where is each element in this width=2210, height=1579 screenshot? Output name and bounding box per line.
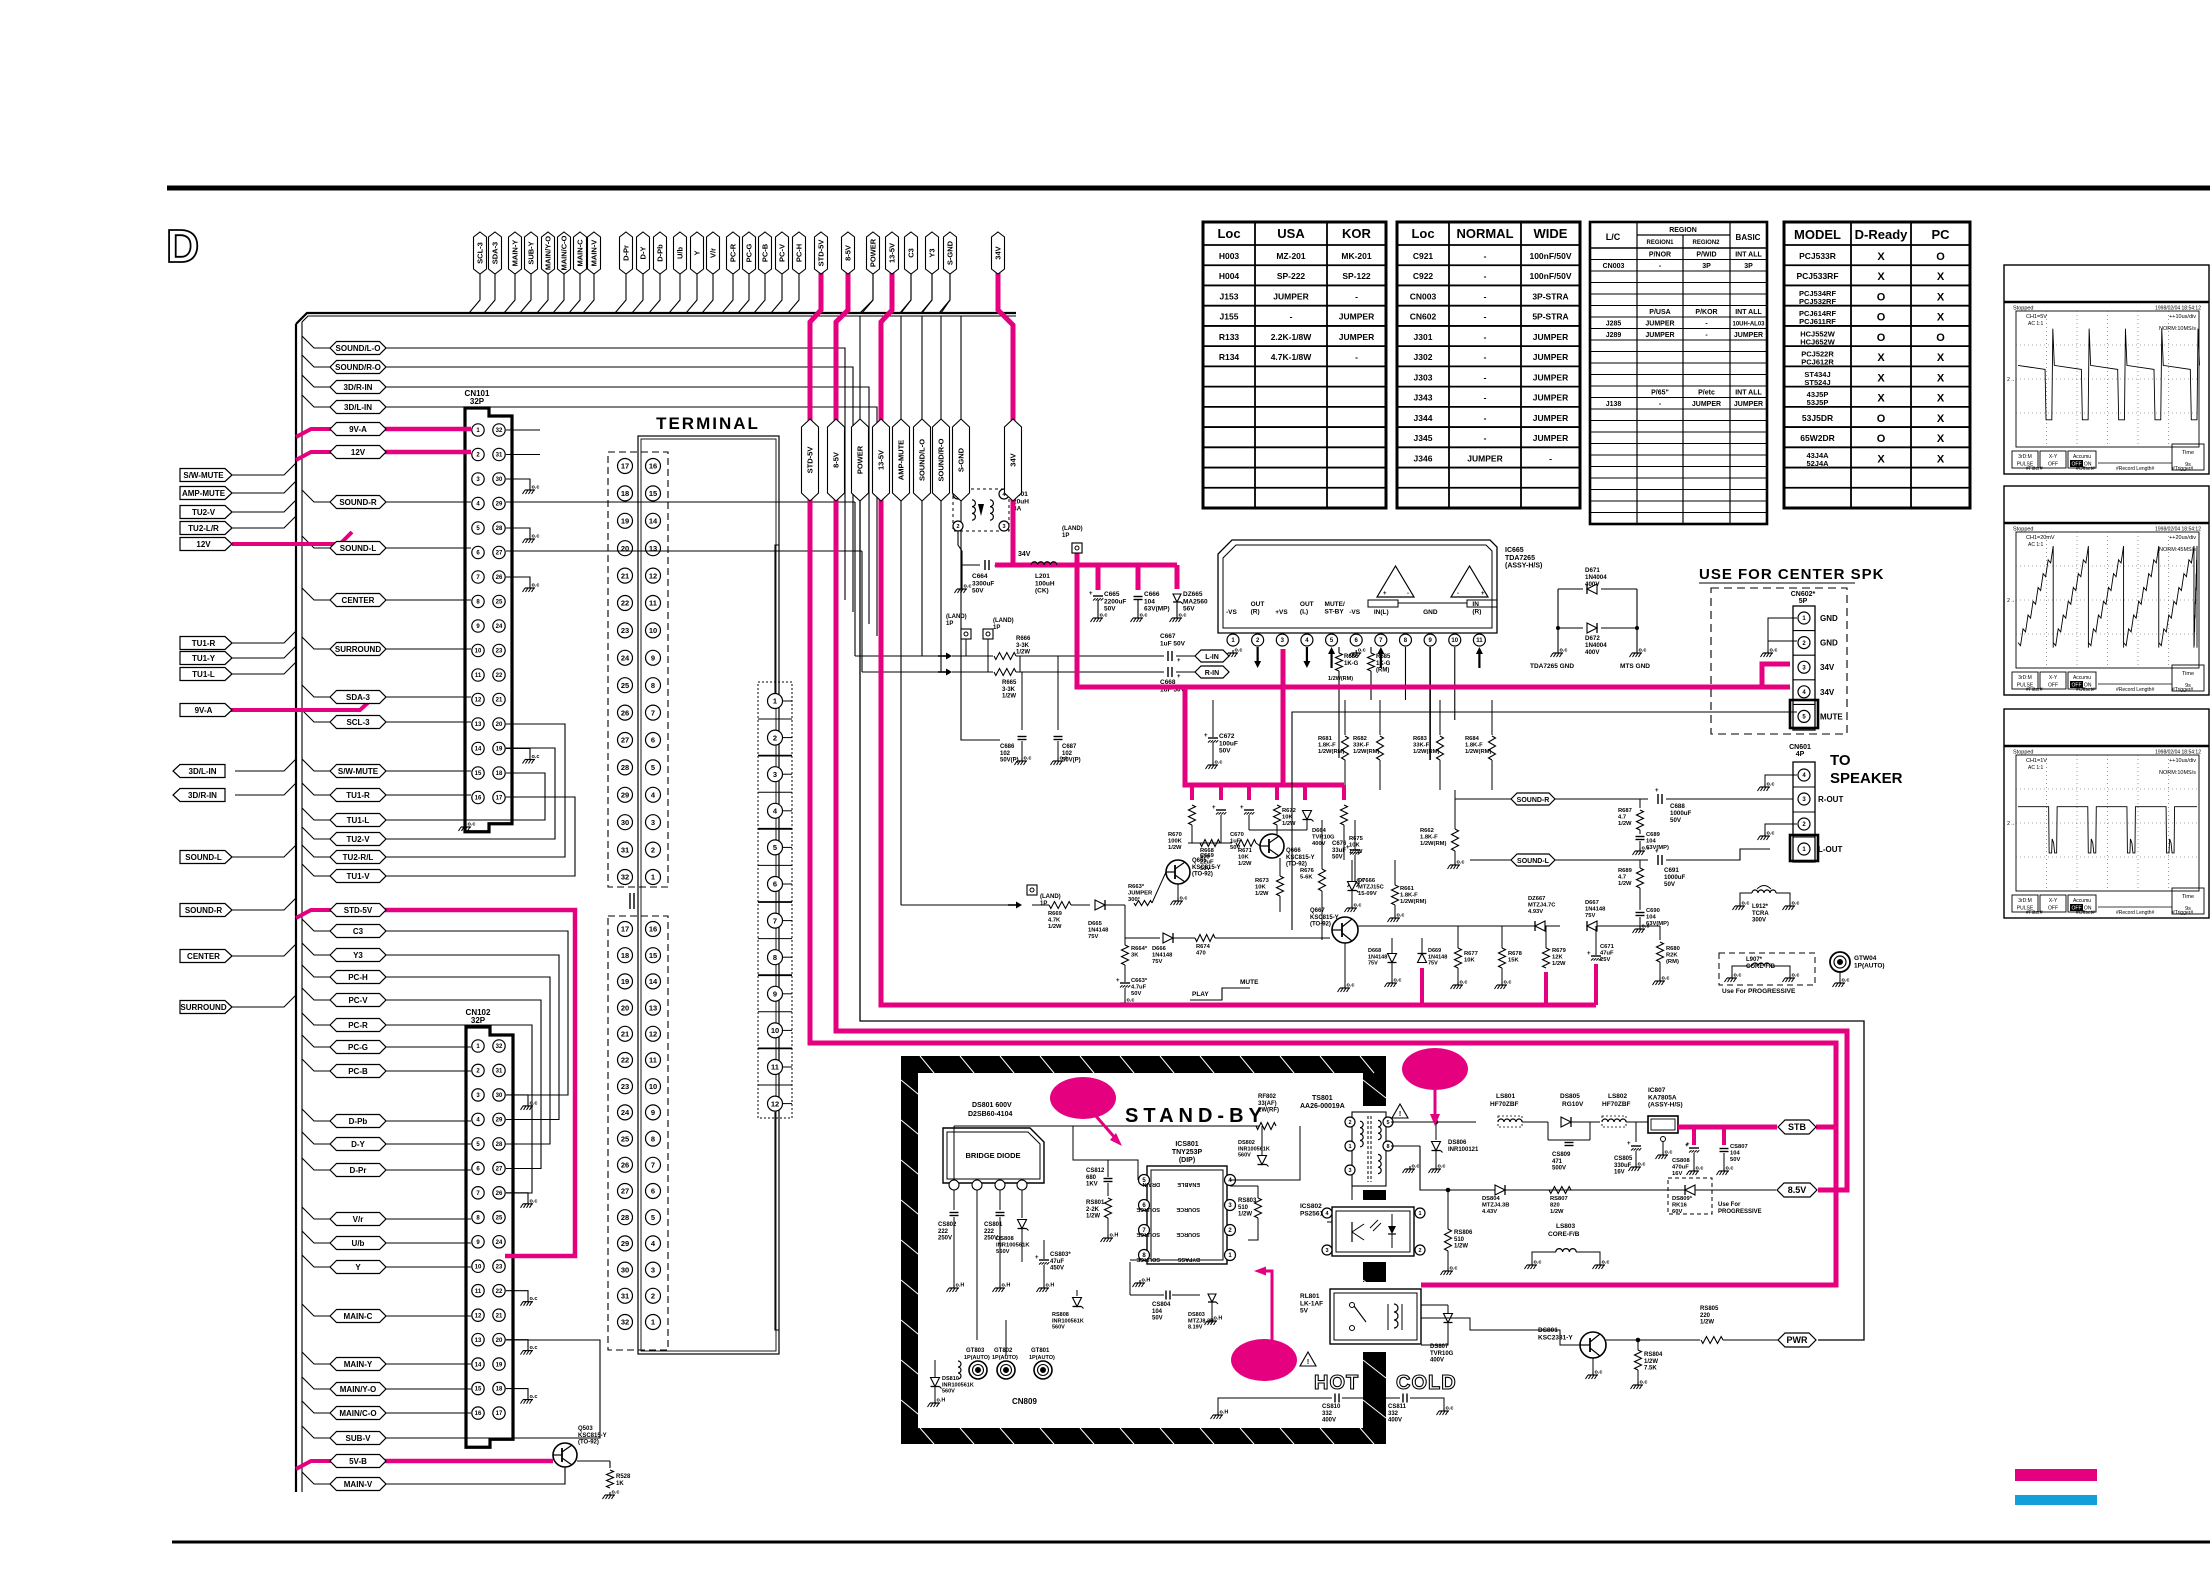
svg-text:5: 5 [651,763,655,772]
svg-text:o.H: o.H [1002,1283,1011,1289]
diode D672 [1558,627,1583,629]
svg-text:D-Ready: D-Ready [1855,227,1909,242]
svg-text:o.c: o.c [1842,978,1850,984]
svg-text:1.8K-F: 1.8K-F [1465,743,1483,749]
flag PC-H [793,232,806,274]
resistor R677 [1455,948,1462,968]
svg-text:S/W-MUTE: S/W-MUTE [183,471,224,480]
wire tag AMP-MUTE [232,481,296,493]
resistor R661 [1392,885,1399,905]
svg-text:DS802: DS802 [1238,1140,1255,1146]
svg-text:100uF: 100uF [1219,740,1238,747]
svg-text:1/2W: 1/2W [1016,650,1030,656]
wire stub D-Pr [302,1158,331,1170]
svg-text:SP-222: SP-222 [1277,271,1306,281]
svg-text:o.c: o.c [1534,1260,1542,1266]
flag D-Pb [654,232,667,274]
svg-text:D669: D669 [1428,948,1441,954]
wire stub MAIN-V [302,1472,331,1484]
resistor RS805 [1701,1337,1723,1344]
svg-text:4.43V: 4.43V [1482,1209,1497,1215]
svg-text:OUT: OUT [1251,601,1265,608]
capacitor CS811 [1386,1397,1400,1399]
svg-text:-: - [1484,251,1487,261]
net label CENTER [330,594,386,607]
svg-text:C686: C686 [1000,744,1015,750]
svg-text:C921: C921 [1413,251,1434,261]
wire tag TU2-L/R [232,516,296,528]
wire MAIN-V [386,1467,565,1484]
svg-text:o.c: o.c [964,584,972,590]
svg-text:3-3K: 3-3K [1002,687,1016,693]
svg-text:15-09V: 15-09V [1358,891,1377,897]
wire stub SCL-3 [302,710,331,722]
svg-text:-: - [1484,433,1487,443]
input tag 12V [180,538,232,551]
diode D667b [1587,921,1597,931]
svg-text:D2SB60-4104: D2SB60-4104 [968,1111,1012,1118]
wire stub C3 [302,919,331,931]
diode DS809 option [1668,1178,1712,1214]
svg-text:CH1=5V: CH1=5V [2026,314,2047,320]
svg-text:2→: 2→ [2007,377,2015,383]
net label U/b [330,1237,386,1250]
svg-text:30: 30 [621,818,629,827]
svg-text:L-IN: L-IN [1205,654,1219,661]
capacitor C690 [1639,888,1641,910]
svg-text:25: 25 [496,600,503,606]
resistor R687 [1639,799,1641,808]
wires diode pump [1557,589,1559,650]
svg-text:CENTER: CENTER [342,596,375,605]
svg-text:D671: D671 [1585,567,1600,574]
svg-text:PC-H: PC-H [348,973,368,982]
svg-text:Accumu: Accumu [2073,454,2091,460]
svg-text:1/2W: 1/2W [1048,924,1062,930]
wire stub SURROUND [302,637,331,649]
zener DS803 [1208,1294,1216,1302]
svg-text:14: 14 [475,1362,482,1368]
cap CS807 [1720,1148,1729,1150]
wire flag U/b [669,274,680,313]
svg-text:C663*: C663* [1131,978,1148,984]
svg-text:3: 3 [651,818,655,827]
svg-text:10: 10 [1451,638,1458,644]
svg-text:C670: C670 [1230,832,1244,838]
svg-text:(R): (R) [1251,608,1260,615]
wires CN602 gnd [1768,618,1797,641]
svg-text:470uF: 470uF [1672,1165,1689,1171]
svg-text:32P: 32P [471,1016,486,1025]
net label PC-V [330,994,386,1007]
svg-text:33K-F: 33K-F [1353,743,1370,749]
svg-text:332: 332 [1388,1411,1399,1417]
svg-text:X-Y: X-Y [2049,898,2058,904]
flag U/b [674,232,687,274]
svg-text:D664: D664 [1312,828,1327,834]
svg-text:31: 31 [621,1292,629,1301]
svg-text:75V: 75V [1088,934,1098,940]
svg-text:32: 32 [496,1044,503,1050]
svg-text:X-Y: X-Y [2049,675,2058,681]
svg-text:1N4148: 1N4148 [1585,907,1606,913]
svg-text:2→: 2→ [2007,821,2015,827]
svg-text:TU1-R: TU1-R [346,791,370,800]
svg-text:(R): (R) [1472,608,1481,615]
svg-text:C672: C672 [1219,733,1235,740]
svg-text:27: 27 [621,736,629,745]
svg-text:3: 3 [1325,1248,1328,1254]
svg-text:+: + [1177,674,1181,680]
svg-text:R673: R673 [1255,878,1270,884]
svg-text:400V: 400V [1585,649,1600,656]
svg-text:-: - [1549,453,1552,463]
svg-text:CH1=1V: CH1=1V [2026,758,2047,764]
svg-text:X: X [1877,372,1885,384]
svg-text:1uF 50V: 1uF 50V [1160,640,1186,647]
svg-text:1/2W: 1/2W [1644,1359,1658,1365]
svg-text:8-5V: 8-5V [844,245,853,261]
wire flag D-Y [632,274,643,313]
gaps in frame for components [1360,1106,1389,1190]
svg-text:60V: 60V [1672,1209,1682,1215]
svg-text:3P: 3P [1744,263,1753,270]
svg-text:#Filter#: #Filter# [2026,466,2043,472]
input tag TU1-Y [180,652,232,665]
svg-text:Q667: Q667 [1310,908,1325,914]
standby thick frame [901,1056,1386,1444]
svg-text:100K: 100K [1168,839,1183,845]
svg-text:TDA7265 GND: TDA7265 GND [1530,663,1574,670]
wire flag MAIN-C [569,274,580,313]
wire stub Y3 [302,943,331,955]
svg-text:(ASSY-H/S): (ASSY-H/S) [1648,1102,1683,1109]
svg-text:12V: 12V [196,540,211,549]
land 1P node redraw [1072,543,1082,553]
svg-text:3P: 3P [1702,263,1711,270]
svg-text:BRIDGE DIODE: BRIDGE DIODE [965,1151,1020,1160]
capacitor C665 [1093,595,1103,597]
wire tag SOUND-L [232,845,296,857]
svg-text:(L): (L) [1300,608,1308,615]
svg-text:MZ-201: MZ-201 [1276,251,1306,261]
net label D-Pr [330,1164,386,1177]
svg-text:PROGRESSIVE: PROGRESSIVE [1718,1209,1762,1215]
svg-text:JUMPER: JUMPER [1339,312,1374,322]
diode RS808 [1076,1290,1078,1296]
svg-text:5V: 5V [1300,1308,1309,1315]
svg-text:34V: 34V [1820,688,1835,697]
svg-text:USE FOR CENTER SPK: USE FOR CENTER SPK [1699,566,1885,583]
pink highlight ellipse 3 [1231,1339,1297,1381]
svg-text:+: + [1212,805,1216,811]
svg-text:LK-1AF: LK-1AF [1300,1300,1323,1307]
net label SOUND/L-O [914,419,931,501]
svg-text:RS801: RS801 [1086,1200,1105,1206]
svg-text:AC 1:1: AC 1:1 [2028,765,2044,771]
svg-text:R686: R686 [1344,654,1359,660]
net label SURROUND [330,643,386,656]
svg-text:1P(AUTO): 1P(AUTO) [1029,1355,1055,1361]
svg-text:o.c: o.c [1638,1162,1646,1168]
svg-text:o.c: o.c [1060,756,1068,762]
net label AMP-MUTE [893,419,910,501]
svg-text:32: 32 [621,873,629,882]
net label R-IN [1195,666,1229,678]
cap CS803 [1039,1259,1049,1261]
svg-text:SURROUND: SURROUND [335,645,381,654]
svg-text:4.7: 4.7 [1618,815,1626,821]
svg-text:1/2W: 1/2W [1002,694,1016,700]
svg-text:X: X [1937,352,1945,364]
svg-text:SOURCE: SOURCE [1176,1231,1200,1237]
svg-text:30: 30 [496,477,503,483]
svg-text:SUB-Y: SUB-Y [527,241,536,264]
svg-text:5-6K: 5-6K [1300,875,1313,881]
inductor L201 [1031,562,1057,565]
svg-text:JUMPER: JUMPER [1692,401,1721,408]
svg-text:AC 1:1: AC 1:1 [2028,542,2044,548]
svg-text:2: 2 [773,733,777,742]
pink net 13-5V mute rail [881,272,1596,1005]
svg-text:JUMPER: JUMPER [1533,433,1568,443]
svg-text:1/2W: 1/2W [1552,961,1566,967]
svg-text:SURROUND: SURROUND [180,1003,226,1012]
svg-text:22uF: 22uF [1200,860,1214,866]
svg-text:R683: R683 [1413,736,1428,742]
progressive option box [1719,953,1815,985]
svg-text:2-2K: 2-2K [1086,1207,1100,1213]
connector GTW04 [1830,952,1850,972]
svg-text:INT ALL: INT ALL [1735,252,1762,259]
pink net STD-5V to CN102 [296,910,333,918]
svg-text:V/r: V/r [709,248,718,258]
svg-text:1/2W(RM): 1/2W(RM) [1420,841,1446,847]
svg-text:R133: R133 [1219,332,1240,342]
svg-text:GT802: GT802 [994,1348,1013,1354]
svg-text:3D/L-IN: 3D/L-IN [344,403,372,412]
svg-text:J345: J345 [1414,433,1433,443]
svg-text:29: 29 [496,1118,503,1124]
wires hex labels to CN102 pins [386,1046,471,1048]
svg-text:D665: D665 [1088,921,1103,927]
net label Y3 [330,949,386,962]
warning triangle [1392,1104,1408,1118]
svg-text:7.5K: 7.5K [1644,1366,1657,1372]
svg-text:13-5V: 13-5V [877,450,886,470]
svg-text:O: O [1877,312,1886,324]
svg-text:33(AF): 33(AF) [1258,1101,1277,1107]
terminal pin group 1 [608,452,668,887]
capacitor C668 [1167,667,1169,677]
svg-text:9V-A: 9V-A [349,425,367,434]
land 1P node [1072,543,1082,553]
inductor L601 [953,489,1009,531]
wire stub PC-B [302,1059,331,1071]
svg-text:STD-5V: STD-5V [344,906,373,915]
svg-text:-: - [1355,352,1358,362]
wire flag SUB-Y [520,274,531,313]
svg-text:4P: 4P [1796,751,1805,758]
svg-text:26: 26 [621,708,629,717]
svg-text:MAIN/Y-O: MAIN/Y-O [544,236,553,270]
svg-text:12V: 12V [351,448,366,457]
svg-text:WIDE: WIDE [1534,226,1568,241]
svg-text:o.c: o.c [530,1345,538,1351]
wire flag MAIN-V [583,274,594,313]
svg-text:1: 1 [651,873,655,882]
svg-text:R681: R681 [1318,736,1333,742]
svg-text:-: - [1484,271,1487,281]
svg-text:JUMPER: JUMPER [1467,453,1502,463]
svg-text:SOURCE: SOURCE [1136,1231,1160,1237]
diode DS807 [1444,1314,1453,1323]
svg-text:13-5V: 13-5V [888,243,897,263]
svg-text:++10us/div: ++10us/div [2169,314,2196,320]
wire flag Y [686,274,697,313]
svg-text:(TO-92): (TO-92) [578,1440,599,1446]
svg-text:DZ665: DZ665 [1183,591,1203,598]
svg-text:22: 22 [621,599,629,608]
svg-text:Accumu: Accumu [2073,898,2091,904]
svg-text:1000uF: 1000uF [1670,810,1692,817]
svg-text:1uF: 1uF [1230,839,1241,845]
svg-text:TDA7265: TDA7265 [1505,555,1535,562]
svg-text:R679: R679 [1552,948,1567,954]
svg-text:J138: J138 [1606,401,1622,408]
svg-text:MUTE: MUTE [1240,979,1259,986]
svg-text:560V: 560V [996,1249,1010,1255]
svg-text:MAIN-Y: MAIN-Y [511,240,520,267]
svg-text:Loc: Loc [1411,226,1434,241]
svg-text:D-Pb: D-Pb [656,244,665,262]
svg-text:100nF/50V: 100nF/50V [1529,251,1571,261]
svg-text:28: 28 [621,763,629,772]
wire to relay from transistor [1421,1318,1580,1345]
svg-text:SDA-3: SDA-3 [491,242,500,265]
svg-text:1: 1 [773,697,777,706]
svg-text:31: 31 [496,1069,503,1075]
svg-text:GTW04: GTW04 [1854,955,1877,962]
svg-text:R-OUT: R-OUT [1818,795,1843,804]
svg-text:PC-B: PC-B [761,243,770,262]
svg-text:34V: 34V [1820,663,1835,672]
svg-text:10: 10 [475,649,482,655]
svg-text:2: 2 [1348,1120,1351,1126]
svg-text:TVR10G: TVR10G [1312,835,1335,841]
svg-text:L201: L201 [1035,573,1050,580]
bridge diode DS801 [943,1128,1044,1183]
transistor Q667 [1332,917,1358,943]
svg-text:5: 5 [1386,1120,1389,1126]
svg-text:SP-122: SP-122 [1342,271,1371,281]
svg-text:R684: R684 [1465,736,1480,742]
svg-text:18: 18 [621,951,629,960]
svg-text:3D/R-IN: 3D/R-IN [344,383,373,392]
svg-text:13: 13 [475,722,482,728]
svg-text:R680: R680 [1666,946,1680,952]
svg-text:50V: 50V [1332,855,1343,861]
wire stub SUB-V [302,1426,331,1438]
svg-text:1N4148: 1N4148 [1088,928,1109,934]
svg-text:O: O [1877,433,1886,445]
svg-text:+: + [1035,1255,1039,1261]
gnd stubs CN601 [1765,775,1797,784]
svg-text:CN602*: CN602* [1791,591,1816,598]
svg-text:X: X [1937,312,1945,324]
svg-text:50V: 50V [1664,881,1676,888]
svg-text:19: 19 [621,977,629,986]
wire stub PC-V [302,988,331,1000]
svg-text:300°: 300° [1128,897,1141,903]
svg-text:V/r: V/r [353,1215,364,1224]
svg-text:(LAND): (LAND) [1040,894,1061,900]
svg-text:o.c: o.c [1770,648,1778,654]
svg-text:820: 820 [1550,1203,1560,1209]
svg-text:16: 16 [649,462,657,471]
wires right of standby top [1391,1121,1436,1123]
input tag 3D/L-IN [173,765,225,778]
net label MAIN-V [330,1478,386,1491]
svg-text:o.c: o.c [1100,613,1108,619]
wire flag MAIN/C-O [553,274,564,313]
svg-text:INT ALL: INT ALL [1735,309,1762,316]
wire SOUND/L-O down [922,501,940,656]
resistor R668 [1200,840,1220,847]
svg-text:400V: 400V [1585,581,1600,588]
svg-text:50V: 50V [1131,991,1141,997]
wire tag 3D/R-IN [235,783,296,795]
svg-text:o.c: o.c [1767,831,1775,837]
svg-text:19: 19 [496,1362,503,1368]
net label PC-H [330,971,386,984]
svg-text:GT801: GT801 [1031,1348,1050,1354]
input tag SOUND-R [180,904,232,917]
svg-text:300V: 300V [1752,918,1766,924]
svg-text:MAIN-C: MAIN-C [576,239,585,267]
svg-text:-: - [1290,312,1293,322]
svg-text:R689: R689 [1618,868,1633,874]
svg-text:S-GND: S-GND [957,447,966,472]
svg-text:(RM): (RM) [1376,668,1389,674]
wire stub SOUND/L-O [302,336,331,348]
input tag SURROUND [180,1001,232,1014]
pink highlight ellipse 2 [1402,1048,1468,1090]
svg-text:OFF: OFF [2048,462,2058,468]
svg-text:1P(AUTO): 1P(AUTO) [992,1355,1018,1361]
wire stub MAIN/Y-O [302,1377,331,1389]
svg-text:D666: D666 [1152,946,1167,952]
table Loc/NORMAL/WIDE [1397,222,1580,508]
svg-text:SDA-3: SDA-3 [346,693,371,702]
svg-text:o.c: o.c [1450,1266,1458,1272]
wire SOUND-R line [1455,798,1648,800]
svg-text:CS805: CS805 [1614,1156,1633,1162]
svg-text:PLAY: PLAY [1192,991,1209,998]
svg-text:Use For: Use For [1718,1202,1741,1208]
svg-text:23: 23 [621,1082,629,1091]
strip wires to frame [775,545,779,693]
svg-text:o.c: o.c [530,1296,538,1302]
svg-text:TU2-R/L: TU2-R/L [343,853,374,862]
resistor RS804 [1635,1350,1642,1370]
svg-text:o.H: o.H [956,1283,965,1289]
svg-text:D668: D668 [1368,948,1381,954]
svg-text:1/2W(RM): 1/2W(RM) [1465,749,1491,755]
svg-text:50V: 50V [1230,845,1240,851]
svg-text:(LAND): (LAND) [946,614,967,620]
wire stub PC-R [302,1013,331,1025]
